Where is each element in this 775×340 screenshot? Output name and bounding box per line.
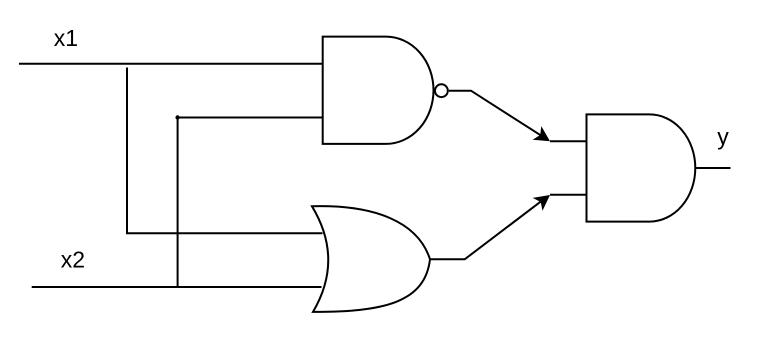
svg-text:x1: x1 xyxy=(54,25,78,51)
svg-text:y: y xyxy=(717,124,729,150)
svg-text:x2: x2 xyxy=(61,247,85,273)
